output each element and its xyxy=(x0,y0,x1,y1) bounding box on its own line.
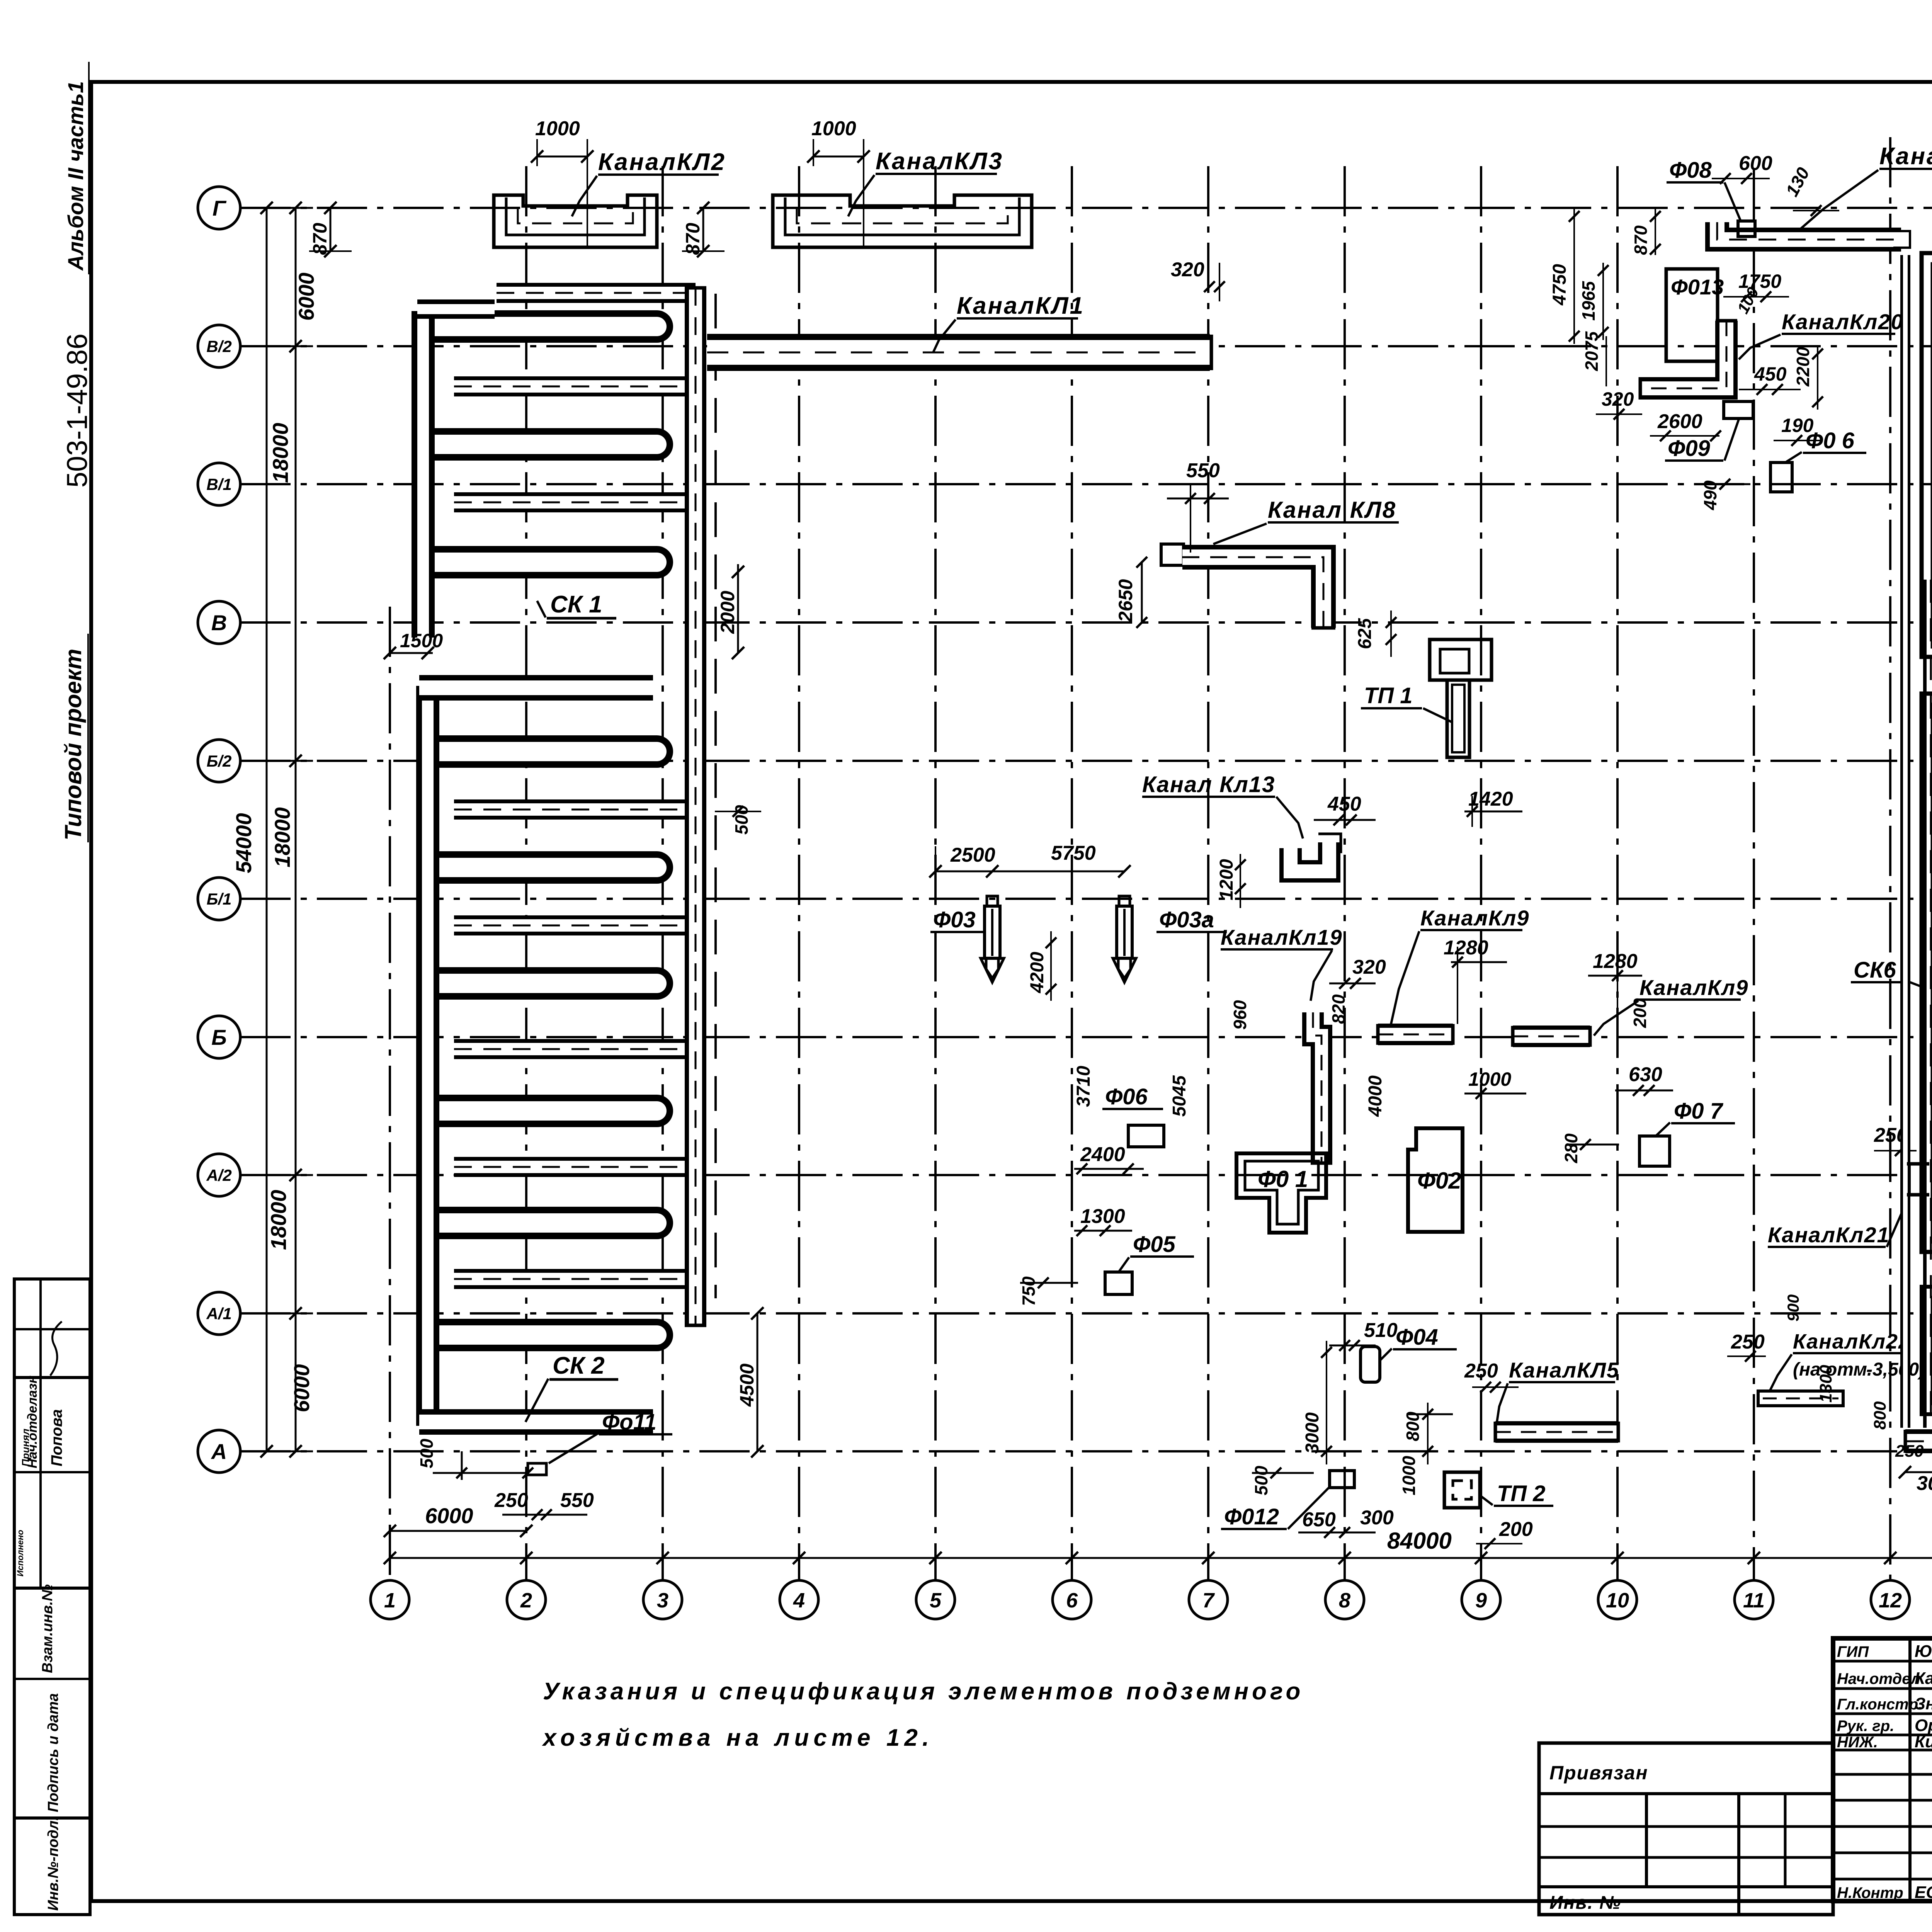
svg-text:250: 250 xyxy=(1464,1360,1498,1382)
svg-text:300: 300 xyxy=(1360,1507,1394,1529)
svg-text:КаналКл22: КаналКл22 xyxy=(1793,1330,1911,1353)
svg-text:280: 280 xyxy=(1561,1133,1581,1163)
svg-text:630: 630 xyxy=(1629,1063,1662,1086)
svg-text:Ф013: Ф013 xyxy=(1671,275,1724,299)
axis column 11 xyxy=(1753,170,1755,1580)
svg-text:4200: 4200 xyxy=(1027,952,1048,993)
svg-text:Б/2: Б/2 xyxy=(207,752,232,770)
svg-text:5045: 5045 xyxy=(1169,1075,1190,1117)
axis row Б xyxy=(240,1036,1932,1038)
svg-text:1420: 1420 xyxy=(1468,788,1513,810)
svg-text:11: 11 xyxy=(1743,1589,1765,1612)
svg-text:Канал КЛ8: Канал КЛ8 xyxy=(1268,497,1396,523)
left margin table xyxy=(14,1279,90,1915)
svg-text:250: 250 xyxy=(1731,1331,1765,1353)
svg-text:800: 800 xyxy=(1871,1401,1889,1430)
СК1 comb upper xyxy=(429,310,657,343)
svg-text:200: 200 xyxy=(1499,1518,1533,1541)
канал КЛ6 xyxy=(1905,1429,1932,1453)
svg-text:1: 1 xyxy=(384,1589,396,1612)
svg-text:4: 4 xyxy=(793,1589,805,1612)
channel end caps xyxy=(1210,335,1213,370)
svg-text:4750: 4750 xyxy=(1549,264,1570,306)
svg-text:Ф0 7: Ф0 7 xyxy=(1674,1099,1724,1124)
svg-text:820: 820 xyxy=(1328,994,1349,1024)
svg-text:510: 510 xyxy=(1364,1319,1398,1342)
dim 2000 xyxy=(737,564,739,653)
svg-text:КаналКл21: КаналКл21 xyxy=(1768,1223,1890,1247)
канал КЛ5 xyxy=(1495,1421,1618,1443)
svg-text:18000: 18000 xyxy=(268,423,293,483)
svg-text:3710: 3710 xyxy=(1073,1066,1094,1107)
svg-text:1500: 1500 xyxy=(400,630,443,651)
svg-text:6000: 6000 xyxy=(425,1503,473,1528)
канал КЛ4 xyxy=(1717,222,1901,240)
svg-text:хозяйства на листе 12.: хозяйства на листе 12. xyxy=(542,1725,934,1751)
svg-text:ТП 2: ТП 2 xyxy=(1497,1481,1546,1506)
ТП1 xyxy=(1430,639,1492,680)
svg-text:1965: 1965 xyxy=(1578,281,1599,321)
svg-text:320: 320 xyxy=(1171,259,1204,281)
svg-text:Ф0 6: Ф0 6 xyxy=(1806,428,1855,453)
svg-text:СК 1: СК 1 xyxy=(550,591,602,618)
svg-text:Попова: Попова xyxy=(48,1409,65,1466)
svg-text:А/2: А/2 xyxy=(206,1166,231,1184)
svg-text:2400: 2400 xyxy=(1080,1143,1125,1166)
канал КЛ20 xyxy=(1640,321,1726,388)
svg-text:ГИП: ГИП xyxy=(1837,1643,1869,1660)
title block xyxy=(1833,1638,1932,1901)
svg-text:КаналКЛ3: КаналКЛ3 xyxy=(876,148,1003,175)
svg-text:Ф04: Ф04 xyxy=(1396,1325,1438,1350)
svg-text:Указания и спецификация эле: Указания и спецификация элементов подзем… xyxy=(543,1678,1304,1705)
svg-text:320: 320 xyxy=(1602,388,1634,410)
svg-text:В: В xyxy=(211,611,227,635)
axis row В xyxy=(240,621,1932,624)
svg-text:КаналКл20: КаналКл20 xyxy=(1782,310,1904,334)
svg-text:870: 870 xyxy=(1631,225,1651,255)
svg-text:7: 7 xyxy=(1202,1589,1215,1612)
Ф09 xyxy=(1724,401,1753,418)
svg-text:Привязан: Привязан xyxy=(1549,1762,1648,1784)
svg-text:Канал Кл13: Канал Кл13 xyxy=(1142,772,1275,797)
svg-text:ЕСИНА: ЕСИНА xyxy=(1915,1883,1932,1902)
svg-text:550: 550 xyxy=(560,1489,594,1512)
канал КЛ13 xyxy=(1291,842,1329,871)
dim 870 left of КЛ3 xyxy=(702,208,704,251)
Ф06 middle xyxy=(1128,1125,1164,1147)
svg-text:Катков: Катков xyxy=(1915,1669,1932,1688)
axis column 3 xyxy=(662,166,664,1580)
svg-text:2000: 2000 xyxy=(717,591,738,634)
svg-text:1300: 1300 xyxy=(1816,1365,1835,1403)
svg-text:9: 9 xyxy=(1475,1589,1487,1612)
svg-text:Ф06: Ф06 xyxy=(1105,1084,1148,1109)
svg-text:1280: 1280 xyxy=(1444,937,1488,959)
svg-text:Гл.констр.: Гл.констр. xyxy=(1837,1696,1922,1713)
svg-text:550: 550 xyxy=(1186,459,1220,482)
svg-text:2075: 2075 xyxy=(1582,331,1602,371)
svg-text:6000: 6000 xyxy=(289,1364,314,1412)
svg-text:КаналКл19: КаналКл19 xyxy=(1221,925,1343,949)
svg-text:5: 5 xyxy=(930,1589,942,1612)
svg-text:Типовой проект: Типовой проект xyxy=(60,649,86,840)
dim 1500 xyxy=(390,652,433,654)
svg-text:2: 2 xyxy=(520,1589,532,1612)
svg-text:2500: 2500 xyxy=(950,844,995,866)
svg-text:КаналКл9: КаналКл9 xyxy=(1639,975,1748,1000)
svg-text:800: 800 xyxy=(1403,1412,1423,1441)
axis row А/2 xyxy=(240,1174,1932,1176)
axis column 7 xyxy=(1207,166,1209,1580)
svg-text:1300: 1300 xyxy=(1080,1205,1125,1228)
axis column 1 xyxy=(389,607,391,1580)
Ф02 xyxy=(1408,1128,1463,1232)
svg-text:Канал Кл4: Канал Кл4 xyxy=(1879,143,1932,170)
svg-text:3: 3 xyxy=(657,1589,668,1612)
svg-text:Ф012: Ф012 xyxy=(1224,1504,1279,1529)
svg-text:СК6: СК6 xyxy=(1854,957,1896,983)
svg-text:Юрин: Юрин xyxy=(1915,1642,1932,1661)
svg-text:1000: 1000 xyxy=(1468,1068,1511,1090)
svg-text:6: 6 xyxy=(1066,1589,1078,1612)
svg-text:450: 450 xyxy=(1754,363,1787,385)
svg-text:Б: Б xyxy=(211,1025,227,1049)
svg-text:Альбом II часть1: Альбом II часть1 xyxy=(63,81,88,271)
dim 1000 over КЛ3 xyxy=(813,156,864,158)
axis row В/1 xyxy=(240,483,1932,485)
left dim chain xyxy=(266,208,268,1451)
Ф07 xyxy=(1639,1136,1670,1166)
svg-text:4500: 4500 xyxy=(736,1364,758,1407)
канал КЛ10/КЛ12 structure xyxy=(1922,694,1932,1283)
svg-text:Знальбертов: Знальбертов xyxy=(1915,1694,1932,1713)
канал КЛ1 xyxy=(707,334,1210,371)
svg-text:870: 870 xyxy=(309,223,331,255)
svg-text:8: 8 xyxy=(1339,1589,1350,1612)
svg-text:2600: 2600 xyxy=(1657,410,1702,433)
svg-text:3000: 3000 xyxy=(1302,1412,1323,1454)
Ф06 right xyxy=(1770,463,1792,492)
svg-text:КаналКл10: КаналКл10 xyxy=(1929,748,1932,854)
svg-text:Нач.отдел: Нач.отдел xyxy=(1837,1670,1920,1687)
svg-text:КаналКл9: КаналКл9 xyxy=(1420,906,1529,930)
svg-text:6000: 6000 xyxy=(294,272,318,321)
svg-text:54000: 54000 xyxy=(231,813,256,873)
svg-text:Инв.№-подл.: Инв.№-подл. xyxy=(45,1816,61,1911)
svg-text:Рук. гр.: Рук. гр. xyxy=(1837,1718,1894,1735)
канал КЛ19 xyxy=(1313,1012,1321,1163)
svg-text:Н.Контр: Н.Контр xyxy=(1837,1884,1903,1901)
канал КЛ3 xyxy=(773,195,1032,247)
svg-text:Ф0 1: Ф0 1 xyxy=(1258,1166,1308,1192)
axis row А xyxy=(240,1450,1932,1452)
axis column 9 xyxy=(1480,166,1482,1580)
svg-text:450: 450 xyxy=(1327,793,1361,815)
svg-text:625: 625 xyxy=(1355,618,1375,649)
svg-text:КаналКЛ1: КаналКЛ1 xyxy=(957,293,1085,319)
Ф03 и Ф03а anchors xyxy=(987,896,998,906)
svg-text:12: 12 xyxy=(1879,1589,1902,1612)
svg-text:84000: 84000 xyxy=(1387,1528,1452,1554)
comb right vertical channel xyxy=(685,288,706,1325)
svg-text:Принял: Принял xyxy=(20,1429,31,1466)
svg-text:500: 500 xyxy=(1251,1466,1271,1495)
dim 4500 xyxy=(757,1313,759,1451)
svg-text:3000: 3000 xyxy=(1917,1472,1932,1495)
svg-text:1000: 1000 xyxy=(811,117,856,140)
svg-text:2200: 2200 xyxy=(1793,347,1813,387)
svg-text:4000: 4000 xyxy=(1365,1075,1386,1117)
svg-text:5750: 5750 xyxy=(1051,842,1096,864)
svg-text:Б/1: Б/1 xyxy=(207,890,232,908)
svg-text:1200: 1200 xyxy=(1216,859,1237,900)
Ф011 bottom left xyxy=(528,1463,546,1475)
привязан block xyxy=(1539,1743,1833,1915)
svg-text:Фо11: Фо11 xyxy=(602,1410,656,1435)
svg-text:Ф02: Ф02 xyxy=(1417,1168,1461,1194)
svg-text:1000: 1000 xyxy=(1399,1456,1419,1495)
svg-text:Подпись и дата: Подпись и дата xyxy=(45,1693,61,1812)
svg-text:18000: 18000 xyxy=(270,807,294,867)
svg-text:СК 2: СК 2 xyxy=(553,1352,605,1379)
ТП2 xyxy=(1444,1472,1480,1508)
axis column 12 xyxy=(1889,137,1891,1580)
svg-text:960: 960 xyxy=(1230,1000,1250,1030)
svg-text:Киреев: Киреев xyxy=(1915,1732,1932,1751)
Ф012 xyxy=(1330,1471,1354,1488)
svg-text:900: 900 xyxy=(1784,1294,1802,1321)
svg-text:870: 870 xyxy=(682,223,704,255)
svg-text:1280: 1280 xyxy=(1593,950,1638,973)
svg-text:Ф05: Ф05 xyxy=(1133,1232,1176,1257)
svg-text:650: 650 xyxy=(1302,1509,1336,1531)
axis column 10 xyxy=(1616,166,1619,1580)
канал КЛ8 xyxy=(1161,544,1184,565)
svg-text:А: А xyxy=(211,1439,227,1464)
Ф05 xyxy=(1105,1272,1132,1294)
svg-text:Инв. №: Инв. № xyxy=(1549,1893,1621,1913)
канал КЛ11 structure xyxy=(1922,253,1932,686)
svg-text:18000: 18000 xyxy=(266,1190,291,1250)
svg-text:В/2: В/2 xyxy=(206,337,231,355)
svg-text:Ф08: Ф08 xyxy=(1669,158,1712,183)
канал КЛ9 first xyxy=(1378,1024,1453,1045)
svg-text:2650: 2650 xyxy=(1115,579,1136,622)
svg-text:КаналКЛ5: КаналКЛ5 xyxy=(1509,1358,1619,1382)
svg-text:500: 500 xyxy=(417,1439,437,1468)
svg-text:Ф03: Ф03 xyxy=(933,907,976,932)
svg-text:А/1: А/1 xyxy=(206,1304,231,1323)
svg-text:1000: 1000 xyxy=(535,117,580,140)
right bottom dims xyxy=(1905,1471,1932,1473)
svg-text:НИЖ.: НИЖ. xyxy=(1837,1734,1878,1751)
axis column 8 xyxy=(1344,166,1346,1580)
svg-text:750: 750 xyxy=(1019,1276,1039,1306)
axis row А/1 xyxy=(240,1312,1932,1315)
dim 1000 over КЛ2 xyxy=(537,156,587,158)
svg-text:250: 250 xyxy=(494,1489,528,1512)
svg-text:503-1-49.86: 503-1-49.86 xyxy=(61,333,93,488)
Ф08 xyxy=(1738,221,1755,236)
svg-text:КаналКЛ2: КаналКЛ2 xyxy=(598,149,726,175)
Ф01 xyxy=(1236,1153,1326,1233)
dim 870 left of КЛ2 xyxy=(330,208,332,251)
svg-text:В/1: В/1 xyxy=(206,475,231,493)
axis row Б/2 xyxy=(240,760,1932,762)
svg-text:Исполнено: Исполнено xyxy=(15,1530,25,1577)
comb dashed strips xyxy=(454,376,696,396)
axis row В/2 xyxy=(240,345,1932,347)
канал КЛ2 xyxy=(494,195,657,247)
svg-text:10: 10 xyxy=(1606,1589,1629,1612)
svg-text:Г: Г xyxy=(213,196,227,220)
svg-text:Ф03а: Ф03а xyxy=(1159,907,1214,932)
svg-text:320: 320 xyxy=(1352,956,1386,978)
svg-text:600: 600 xyxy=(1739,152,1772,175)
bottom maze block xyxy=(1922,1287,1932,1414)
axis row Б/1 xyxy=(240,898,1932,900)
СК2 comb lower xyxy=(433,735,657,768)
axis column 5 xyxy=(934,166,937,1580)
svg-text:Взам.инв.№: Взам.инв.№ xyxy=(39,1584,56,1673)
axis column 6 xyxy=(1071,166,1073,1580)
svg-text:250: 250 xyxy=(1895,1442,1924,1461)
svg-text:200: 200 xyxy=(1630,998,1650,1028)
axis column 4 xyxy=(798,166,800,1580)
bottom dim line 84000 xyxy=(390,1557,1932,1559)
svg-text:ТП 1: ТП 1 xyxy=(1364,683,1413,708)
axis row Г xyxy=(240,207,1932,209)
svg-text:Ф09: Ф09 xyxy=(1668,436,1710,461)
svg-text:-3,500): -3,500) xyxy=(1866,1359,1925,1380)
Ф013 xyxy=(1666,269,1718,361)
axis column 2 xyxy=(525,166,527,1580)
канал КЛ9 second xyxy=(1513,1026,1590,1047)
Ф04 xyxy=(1361,1347,1380,1382)
